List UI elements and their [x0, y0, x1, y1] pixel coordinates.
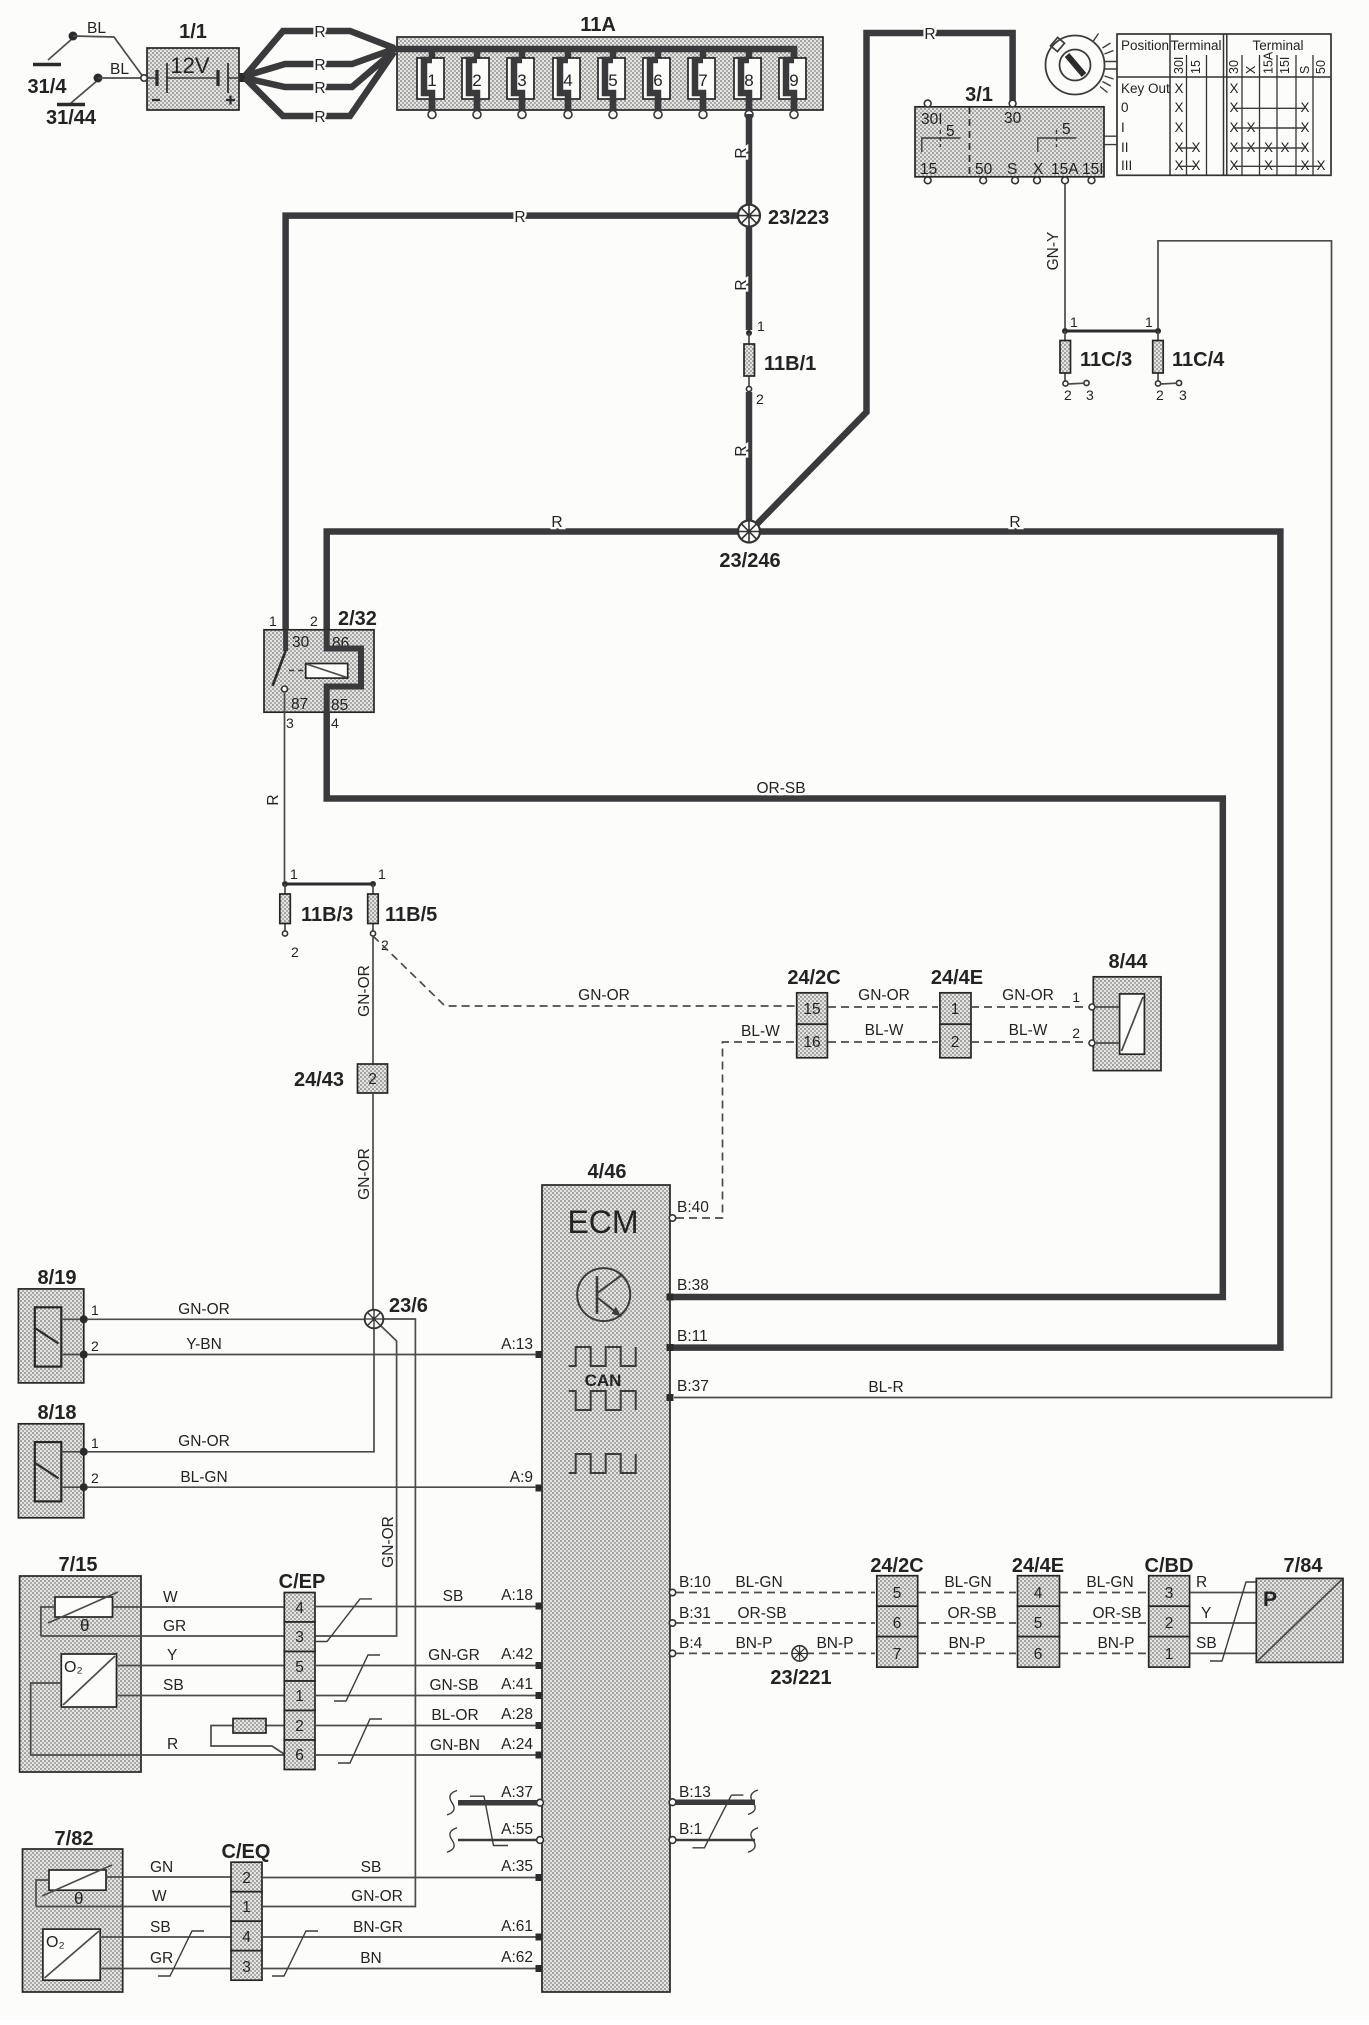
svg-text:2: 2 [91, 1470, 99, 1486]
svg-text:BL-R: BL-R [868, 1379, 903, 1396]
wire SB from C/BD pin 1 to 7/84 [1190, 1635, 1256, 1653]
connector C/BD pins 3 2 1 [1145, 1555, 1194, 1667]
svg-text:50: 50 [975, 161, 993, 178]
wire BL-GN dashed 24/2C to 24/4E [918, 1574, 1016, 1593]
svg-text:BL-GN: BL-GN [1086, 1574, 1133, 1591]
ECM pin A:55 stub wire [447, 1821, 543, 1852]
svg-text:B:11: B:11 [677, 1328, 708, 1345]
wire SB from 7/15 sensor to C/EP pin 1 [117, 1677, 285, 1696]
svg-text:1: 1 [1070, 314, 1078, 330]
fuse 11A:3 [507, 49, 534, 119]
wire R main horizontal to ECM B:11 [327, 514, 1281, 1348]
svg-text:B:37: B:37 [677, 1378, 709, 1395]
svg-text:6: 6 [1034, 1646, 1043, 1663]
svg-text:I: I [1121, 120, 1125, 135]
wire GN-OR branch from 23/6 down to C/EP pin 3 [315, 1325, 397, 1636]
wire BL from 31/44 to battery [98, 61, 144, 78]
svg-text:15: 15 [803, 1001, 820, 1018]
svg-text:1: 1 [91, 1302, 99, 1318]
svg-text:Y-BN: Y-BN [186, 1336, 222, 1353]
svg-text:2: 2 [1165, 1615, 1174, 1632]
svg-text:C/EP: C/EP [279, 1571, 326, 1593]
svg-text:OR-SB: OR-SB [1092, 1605, 1141, 1622]
wire BL from 31/4 to battery [73, 20, 144, 78]
svg-text:5: 5 [608, 71, 617, 90]
svg-text:Key Out: Key Out [1121, 81, 1170, 96]
svg-text:GN-SB: GN-SB [429, 1677, 478, 1694]
fuse 11A:5 [598, 49, 625, 119]
svg-text:A:13: A:13 [501, 1336, 533, 1353]
svg-text:W: W [163, 1589, 178, 1606]
svg-text:R: R [733, 147, 750, 158]
wire R from 23/223 to fuse 11B/1 [733, 226, 750, 330]
fuse 11B/1 [744, 318, 816, 407]
svg-text:BL-W: BL-W [865, 1022, 904, 1039]
svg-text:II: II [1121, 140, 1129, 155]
wire GN-OR dashed 24/2C to 24/4E [828, 987, 938, 1007]
splice 23/246 [719, 521, 780, 573]
wire battery feed 2 (R) [245, 49, 394, 76]
wire OR-SB dashed from ECM B:31 to 24/2C pin 6 [669, 1605, 875, 1626]
svg-text:4: 4 [563, 71, 572, 90]
svg-text:24/4E: 24/4E [1012, 1555, 1064, 1577]
svg-text:2: 2 [1064, 387, 1072, 403]
wire GN-OR from 24/43 to splice 23/6 [356, 1093, 373, 1309]
svg-text:1: 1 [427, 71, 436, 90]
svg-text:2: 2 [91, 1338, 99, 1354]
fuse 11B/3 [280, 884, 353, 960]
svg-text:2: 2 [1156, 387, 1164, 403]
svg-text:X: X [1174, 120, 1183, 135]
node bar fuses 11C/3 11C/4 pin 1 [1062, 314, 1161, 334]
svg-text:7/15: 7/15 [59, 1554, 98, 1576]
svg-text:III: III [1121, 158, 1132, 173]
svg-text:Y: Y [167, 1647, 177, 1664]
svg-text:2: 2 [291, 944, 299, 960]
svg-text:5: 5 [295, 1659, 304, 1676]
svg-text:30: 30 [1004, 110, 1022, 127]
wire W from 7/82 heater to C/EQ pin 1 [123, 1888, 231, 1907]
svg-text:4: 4 [331, 715, 339, 731]
svg-text:X: X [1264, 158, 1273, 173]
svg-text:4/46: 4/46 [588, 1161, 627, 1183]
svg-text:7/84: 7/84 [1284, 1555, 1324, 1577]
svg-text:23/246: 23/246 [719, 550, 780, 572]
oxygen sensor relay 8/19 [18, 1267, 99, 1383]
svg-text:GN-OR: GN-OR [356, 1148, 373, 1200]
svg-text:30: 30 [1227, 60, 1241, 74]
wire GN-OR from 8/18 pin 1 up to splice 23/6 [87, 1328, 374, 1452]
svg-text:GN-OR: GN-OR [578, 987, 630, 1004]
splice 23/221 [770, 1646, 831, 1689]
svg-text:GN-OR: GN-OR [380, 1516, 397, 1568]
ECM pin A:61 [501, 1918, 542, 1941]
connector C/EQ [222, 1841, 271, 1980]
instrument 7/84 [1256, 1555, 1343, 1662]
ECM pin A:9 [510, 1469, 543, 1492]
svg-text:87: 87 [291, 696, 308, 713]
battery 1/1 [141, 21, 247, 110]
svg-text:B:40: B:40 [677, 1199, 709, 1216]
shield slash on C/EQ output wires [272, 1931, 318, 1976]
svg-text:85: 85 [331, 697, 348, 714]
fuse 11A:9 [779, 49, 806, 119]
svg-text:6: 6 [893, 1615, 902, 1632]
svg-text:A:42: A:42 [501, 1646, 533, 1663]
ECM pin A:35 [501, 1858, 542, 1881]
wire R from relay 87 to fuses 11B/3 11B/5 [265, 692, 285, 881]
svg-text:S: S [1298, 66, 1312, 74]
wire BN-P dashed 24/4E to C/BD [1060, 1635, 1147, 1653]
svg-text:B:38: B:38 [677, 1277, 709, 1294]
svg-text:23/221: 23/221 [770, 1667, 831, 1689]
svg-text:R: R [733, 279, 750, 290]
svg-text:1: 1 [757, 318, 765, 334]
svg-text:4: 4 [1034, 1585, 1043, 1602]
svg-text:A:41: A:41 [501, 1676, 533, 1693]
wire GR from 7/15 heater to C/EP pin 3 [141, 1618, 284, 1636]
switch 8/44 [1089, 951, 1161, 1071]
ECM transistor symbol [577, 1268, 630, 1321]
svg-text:R: R [314, 57, 325, 74]
wire BL-W dashed 24/2C to 24/4E [828, 1022, 938, 1042]
wire GN-GR from C/EP pin 5 to ECM A:42 [315, 1647, 536, 1666]
svg-text:X: X [1244, 65, 1258, 74]
svg-text:31/4: 31/4 [28, 76, 68, 98]
svg-text:GN-OR: GN-OR [858, 987, 910, 1004]
svg-text:R: R [314, 109, 325, 126]
ECM square wave symbol 2 [569, 1391, 636, 1410]
wire BL-GN from 8/18 pin 2 to ECM A:9 [87, 1469, 536, 1487]
svg-text:15I: 15I [1278, 57, 1292, 74]
svg-text:5: 5 [1062, 121, 1071, 138]
svg-text:2: 2 [756, 391, 764, 407]
svg-text:BL-W: BL-W [1009, 1022, 1048, 1039]
svg-text:2: 2 [1072, 1025, 1080, 1041]
svg-text:GN-OR: GN-OR [178, 1301, 230, 1318]
connector 24/4E pin 1 [940, 993, 971, 1024]
shield slash on C/EP pins 5-1 wires [334, 1655, 380, 1701]
resistor on C/EP pin 2 branch [211, 1719, 284, 1755]
svg-text:8/44: 8/44 [1109, 951, 1149, 973]
svg-text:4: 4 [242, 1929, 251, 1946]
wire battery feed 3 (R) [245, 51, 394, 97]
svg-text:24/2C: 24/2C [787, 967, 840, 989]
shield slash on C/EP pins 4-3 wires [315, 1599, 372, 1642]
svg-text:X: X [1229, 81, 1238, 96]
svg-text:GN-OR: GN-OR [356, 965, 373, 1017]
fuse 11C/3 [1060, 331, 1132, 403]
svg-text:1: 1 [242, 1899, 251, 1916]
heated oxygen sensor 7/82 [23, 1828, 123, 1992]
svg-text:BL-GN: BL-GN [735, 1574, 782, 1591]
svg-text:X: X [1229, 100, 1238, 115]
wire BL-GN dashed 24/4E to C/BD [1060, 1574, 1147, 1593]
svg-text:31/44: 31/44 [46, 107, 97, 129]
svg-text:24/2C: 24/2C [870, 1555, 923, 1577]
svg-text:3: 3 [1086, 387, 1094, 403]
node bar fuses 11B/3 11B/5 pin 1 [282, 866, 386, 887]
svg-text:Terminal: Terminal [1170, 38, 1221, 53]
svg-text:SB: SB [361, 1859, 382, 1876]
svg-text:11A: 11A [580, 14, 616, 36]
svg-text:R: R [551, 514, 562, 531]
relay 2/32 switch contact 30-87 [273, 630, 288, 692]
svg-text:1: 1 [378, 866, 386, 882]
svg-text:BL: BL [110, 61, 129, 78]
svg-text:Terminal: Terminal [1252, 38, 1303, 53]
svg-text:R: R [1196, 1574, 1207, 1591]
svg-text:5: 5 [893, 1585, 902, 1602]
svg-text:23/223: 23/223 [768, 207, 829, 229]
svg-text:X: X [1174, 158, 1183, 173]
svg-text:1/1: 1/1 [179, 21, 207, 43]
svg-text:15A: 15A [1051, 161, 1079, 178]
svg-text:BL-W: BL-W [741, 1023, 780, 1040]
svg-text:BN-P: BN-P [948, 1635, 985, 1652]
svg-text:1: 1 [269, 613, 277, 629]
svg-text:3: 3 [286, 715, 294, 731]
svg-text:8/18: 8/18 [38, 1402, 77, 1424]
svg-text:9: 9 [789, 71, 798, 90]
svg-text:X: X [1300, 100, 1309, 115]
wire BL-W dashed 24/4E to 8/44 pin 2 [971, 1022, 1088, 1042]
svg-text:BL: BL [87, 20, 106, 37]
connector 24/4E pin 2 [931, 967, 983, 1058]
svg-text:R: R [167, 1736, 178, 1753]
fuse 11A:8 [734, 49, 761, 119]
ECM pin B:1 stub wire [669, 1821, 758, 1852]
svg-text:B:10: B:10 [679, 1574, 711, 1591]
svg-text:BL-GN: BL-GN [180, 1469, 227, 1486]
svg-text:1: 1 [91, 1435, 99, 1451]
svg-text:C/EQ: C/EQ [222, 1841, 271, 1863]
connector 24/2C pin 15 [797, 993, 828, 1024]
svg-text:X: X [1229, 158, 1238, 173]
svg-text:GR: GR [163, 1618, 186, 1635]
svg-text:GN-Y: GN-Y [1045, 232, 1062, 271]
svg-text:C/BD: C/BD [1145, 1555, 1194, 1577]
wire R horizontal to relay (left leg) [286, 209, 749, 629]
ECM pin A:62 [501, 1949, 542, 1972]
svg-text:X: X [1174, 100, 1183, 115]
svg-text:3/1: 3/1 [965, 84, 993, 106]
svg-text:BN-GR: BN-GR [353, 1919, 403, 1936]
svg-text:15A: 15A [1262, 51, 1276, 74]
svg-text:0: 0 [1121, 100, 1129, 115]
ECM pin A:37 stub wire [447, 1784, 543, 1815]
shield slash on A:37 A:55 stubs [470, 1796, 508, 1845]
fuse 11A:6 [643, 49, 670, 119]
wire R from 11B/1 to splice 23/246 [733, 392, 750, 528]
svg-text:P: P [1263, 1588, 1277, 1611]
svg-text:11C/4: 11C/4 [1172, 349, 1225, 371]
svg-text:GR: GR [150, 1950, 173, 1967]
svg-text:1: 1 [1165, 1646, 1174, 1663]
wire SB from C/EP pin 4 to ECM A:18 [315, 1588, 536, 1607]
svg-text:O₂: O₂ [46, 1934, 65, 1951]
wire BN-P dashed from ECM B:4 to 24/2C pin 7 [669, 1635, 875, 1657]
ECM pin A:18 [501, 1587, 542, 1610]
svg-text:6: 6 [295, 1747, 304, 1764]
svg-text:3: 3 [295, 1629, 304, 1646]
svg-text:3: 3 [1179, 387, 1187, 403]
svg-text:GN-OR: GN-OR [1002, 987, 1054, 1004]
svg-text:2: 2 [368, 1071, 377, 1088]
svg-text:X: X [1191, 158, 1200, 173]
svg-text:3: 3 [242, 1959, 251, 1976]
svg-text:X: X [1316, 158, 1325, 173]
splice 23/6 [365, 1295, 428, 1328]
ground 31/44 [46, 74, 103, 130]
svg-text:11B/5: 11B/5 [385, 904, 437, 926]
svg-text:1: 1 [1145, 314, 1153, 330]
svg-text:5: 5 [946, 123, 955, 140]
wire BL-W dashed from ECM B:40 to 24/2C pin 16 [676, 1023, 795, 1218]
svg-text:ECM: ECM [567, 1204, 638, 1240]
wire Y from 7/15 sensor to C/EP pin 5 [117, 1647, 285, 1666]
svg-text:24/43: 24/43 [294, 1069, 344, 1091]
ECM pin A:24 [501, 1736, 542, 1759]
svg-text:8: 8 [744, 71, 753, 90]
fuse 11A:4 [553, 49, 580, 119]
svg-text:2: 2 [472, 71, 481, 90]
svg-text:BL-GN: BL-GN [944, 1574, 991, 1591]
shield slash on 7/82 sensor wires [158, 1931, 204, 1976]
svg-text:SB: SB [163, 1677, 184, 1694]
svg-text:2/32: 2/32 [338, 608, 377, 630]
svg-text:A:9: A:9 [510, 1469, 533, 1486]
fuse 11C/4 [1153, 331, 1225, 403]
wire GN-OR dashed from 11B/5 to 24/2C pin 15 [373, 936, 795, 1006]
ECM pin B:11 [667, 1328, 708, 1351]
svg-text:Position: Position [1121, 38, 1169, 53]
ECM square wave symbol 3 [569, 1454, 636, 1473]
svg-text:GN: GN [150, 1859, 173, 1876]
svg-text:30I: 30I [1172, 57, 1186, 74]
relay 2/32 [264, 608, 377, 731]
wire GN-SB from C/EP pin 1 to ECM A:41 [315, 1677, 536, 1696]
svg-text:X: X [1300, 158, 1309, 173]
svg-text:A:55: A:55 [501, 1821, 533, 1838]
fuse 11A:1 [417, 49, 444, 119]
svg-text:1: 1 [290, 866, 298, 882]
svg-text:OR-SB: OR-SB [756, 780, 805, 797]
wire BL-OR from C/EP pin 2 to ECM A:28 [315, 1707, 536, 1726]
svg-text:A:28: A:28 [501, 1706, 533, 1723]
svg-text:R: R [1009, 514, 1020, 531]
svg-text:R: R [265, 794, 282, 805]
ground 31/4 [28, 32, 78, 99]
svg-text:A:24: A:24 [501, 1736, 533, 1753]
svg-text:3: 3 [1165, 1585, 1174, 1602]
svg-text:4: 4 [295, 1600, 304, 1617]
wire GN-OR dashed 24/4E to 8/44 pin 1 [971, 987, 1088, 1007]
shield slash on C/BD wires [1210, 1582, 1258, 1661]
svg-text:GN-BN: GN-BN [430, 1737, 480, 1754]
svg-text:θ: θ [80, 1616, 89, 1635]
svg-text:X: X [1033, 161, 1044, 178]
wire GN from 7/82 heater to C/EQ pin 2 [106, 1859, 231, 1877]
svg-text:1: 1 [295, 1688, 304, 1705]
svg-text:11B/1: 11B/1 [764, 353, 816, 375]
svg-text:R: R [514, 209, 525, 226]
shield slash on C/EP pins 2-6 wires [338, 1719, 382, 1763]
ECM pin A:28 [501, 1706, 542, 1729]
svg-text:16: 16 [803, 1034, 820, 1051]
svg-text:SB: SB [443, 1588, 464, 1605]
fuse 11A:2 [462, 49, 489, 119]
svg-text:A:18: A:18 [501, 1587, 533, 1604]
wire SB from 7/82 sensor to C/EQ pin 4 [100, 1919, 231, 1937]
svg-text:23/6: 23/6 [389, 1295, 428, 1317]
svg-text:1: 1 [951, 1001, 960, 1018]
wire BN-P dashed 24/2C to 24/4E [918, 1635, 1016, 1653]
svg-text:15: 15 [1189, 60, 1203, 74]
svg-text:7: 7 [698, 71, 707, 90]
wire Y-BN from 8/19 pin 2 to ECM A:13 [87, 1336, 536, 1355]
connector 24/43 [294, 1064, 388, 1093]
wire battery feed 4 (R) [245, 52, 394, 126]
svg-text:R: R [733, 445, 750, 456]
svg-text:CAN: CAN [585, 1371, 622, 1390]
svg-text:B:1: B:1 [679, 1821, 702, 1838]
svg-text:BN: BN [360, 1950, 382, 1967]
wire GN-OR branch from 23/6 down to C/EQ pin 1 [263, 1319, 415, 1907]
connector 24/2C pin 16 [787, 967, 840, 1058]
svg-text:GN-GR: GN-GR [428, 1647, 480, 1664]
wire battery feed 1 (R) [245, 24, 394, 76]
svg-text:8/19: 8/19 [38, 1267, 77, 1289]
ECM 4/46 box [542, 1161, 670, 1992]
ECM pin B:37 [667, 1378, 709, 1401]
heated oxygen sensor 7/15 [20, 1554, 141, 1772]
connecting lines 3/1 to table [1105, 136, 1118, 144]
ECM pin B:13 stub wire [669, 1784, 758, 1814]
ignition key symbol [1046, 34, 1118, 95]
wire OR-SB from relay 85 to ECM B:38 [327, 712, 1223, 1297]
svg-text:B:13: B:13 [679, 1784, 711, 1801]
svg-text:BL-OR: BL-OR [431, 1707, 478, 1724]
ECM pin A:41 [501, 1676, 542, 1699]
svg-text:1: 1 [1072, 989, 1080, 1005]
wire BN from C/EQ pin 3 to ECM A:62 [262, 1950, 536, 1969]
svg-text:11C/3: 11C/3 [1080, 349, 1132, 371]
wire BN-GR from C/EQ pin 4 to ECM A:61 [262, 1919, 536, 1937]
svg-text:2: 2 [295, 1718, 304, 1735]
wire SB from C/EQ pin 2 to ECM A:35 [262, 1859, 536, 1878]
ECM square wave symbol 1 [569, 1347, 636, 1366]
svg-text:SB: SB [150, 1919, 171, 1936]
svg-text:OR-SB: OR-SB [947, 1605, 996, 1622]
svg-text:7/82: 7/82 [55, 1828, 94, 1850]
svg-text:θ: θ [74, 1889, 83, 1908]
ignition switch 3/1 [915, 84, 1104, 184]
svg-text:GN-OR: GN-OR [351, 1888, 403, 1905]
ECM pin B:38 [667, 1277, 709, 1301]
svg-text:5: 5 [1034, 1615, 1043, 1632]
svg-text:A:61: A:61 [501, 1918, 533, 1935]
splice 23/223 [738, 205, 829, 229]
svg-text:R: R [314, 24, 325, 41]
svg-text:2: 2 [310, 613, 318, 629]
ECM pin A:13 [501, 1336, 542, 1358]
svg-text:B:4: B:4 [679, 1635, 703, 1652]
svg-text:W: W [152, 1888, 167, 1905]
ECM pin B:40 [669, 1199, 709, 1221]
wire BL-R from fuse 11C/4 to ECM B:37 [674, 241, 1332, 1398]
wire R from C/BD pin 3 to 7/84 [1190, 1574, 1256, 1593]
